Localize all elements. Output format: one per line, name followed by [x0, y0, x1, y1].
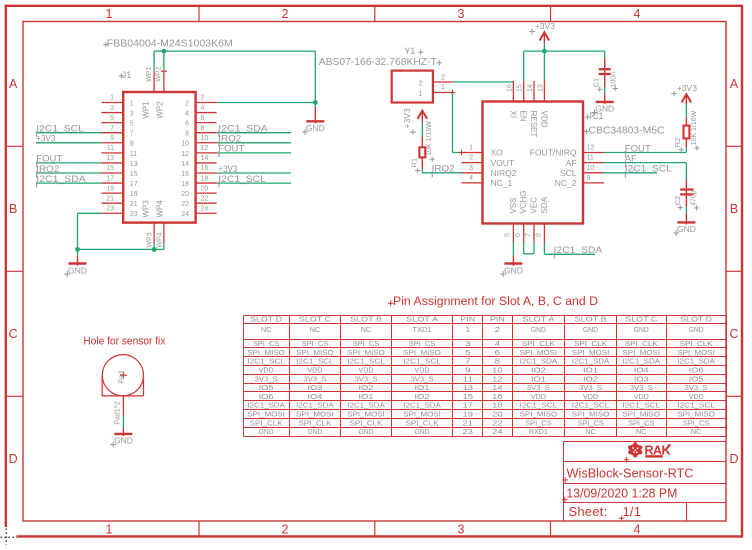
- svg-text:SCL: SCL: [560, 168, 577, 178]
- svg-text:CBC34803-M5C: CBC34803-M5C: [589, 126, 665, 137]
- capacitor C2 value label 470p: [691, 190, 700, 210]
- svg-text:RESET: RESET: [529, 111, 538, 138]
- svg-text:8: 8: [495, 359, 501, 366]
- svg-text:VDD: VDD: [634, 394, 649, 401]
- svg-text:10: 10: [181, 141, 189, 148]
- IC1 right pins 12 11 10 9 FOUT/NIRQ AF SCL NC_2: [530, 145, 604, 189]
- svg-text:D: D: [729, 452, 738, 466]
- J1 right pin stubs 2..24: [196, 103, 217, 214]
- svg-text:I2C1_SDA: I2C1_SDA: [247, 403, 285, 410]
- table title: Pin Assignment for Slot A, B, C and D: [388, 296, 598, 308]
- svg-text:IRQ2: IRQ2: [218, 134, 241, 144]
- svg-text:15: 15: [517, 84, 524, 92]
- svg-text:IO6: IO6: [689, 367, 704, 374]
- svg-text:SPI_MISO: SPI_MISO: [347, 350, 385, 357]
- svg-text:I2C1_SCL: I2C1_SCL: [403, 359, 441, 366]
- svg-text:21: 21: [463, 420, 474, 427]
- svg-text:21: 21: [130, 201, 138, 208]
- svg-text:SLOT D: SLOT D: [250, 317, 282, 324]
- crystal Y1 name label: [404, 46, 423, 56]
- wire J1 pin2 to GND: [217, 103, 316, 108]
- svg-text:GND: GND: [583, 327, 598, 334]
- svg-text:SPI_MISO: SPI_MISO: [247, 350, 285, 357]
- svg-text:3: 3: [458, 522, 465, 536]
- svg-text:C: C: [729, 327, 738, 341]
- svg-text:VDD: VDD: [531, 394, 546, 401]
- svg-text:9: 9: [465, 367, 471, 374]
- capacitor C2 name label: [673, 196, 683, 210]
- svg-text:SPI_CS: SPI_CS: [409, 341, 436, 348]
- svg-text:2: 2: [185, 100, 189, 107]
- svg-text:17: 17: [106, 175, 114, 182]
- svg-text:2: 2: [282, 522, 289, 536]
- wire net IRQ2 (J1 left): [36, 172, 102, 174]
- net label IRQ2: [432, 164, 455, 178]
- svg-text:WP2: WP2: [155, 101, 164, 119]
- svg-text:4: 4: [185, 110, 189, 117]
- junction at +3V3 above IC1: [542, 49, 547, 54]
- text Hole for sensor fix: [83, 336, 165, 348]
- svg-text:NC: NC: [361, 327, 372, 334]
- svg-text:I2C1_SDA: I2C1_SDA: [403, 403, 441, 410]
- svg-text:NC: NC: [310, 327, 321, 334]
- ground GND (near J1 pin 2): [302, 107, 325, 135]
- svg-text:24: 24: [181, 211, 189, 218]
- wire IC1 VSS to GND: [512, 242, 514, 256]
- svg-text:470p: 470p: [691, 190, 698, 206]
- svg-text:SLOT A: SLOT A: [406, 317, 438, 324]
- svg-text:IO4: IO4: [307, 394, 322, 401]
- wire IC1 VCHG to VEC: [524, 242, 534, 254]
- svg-text:10K 1/16W: 10K 1/16W: [691, 110, 698, 145]
- svg-text:VDD: VDD: [689, 394, 704, 401]
- svg-text:I2C1_SDA: I2C1_SDA: [296, 403, 334, 410]
- svg-text:3V3_S: 3V3_S: [411, 376, 434, 383]
- svg-text:12: 12: [492, 376, 503, 383]
- wire C2 to GND: [685, 207, 687, 214]
- junction at GND corner below J1: [75, 247, 80, 252]
- svg-text:22: 22: [492, 420, 503, 427]
- Y1 pin 2: [418, 75, 452, 88]
- svg-text:IO1: IO1: [359, 394, 374, 401]
- svg-text:7: 7: [110, 125, 114, 132]
- junction at WP1/WP2: [162, 49, 167, 54]
- svg-text:3V3_S: 3V3_S: [527, 385, 550, 392]
- svg-text:2: 2: [201, 95, 205, 102]
- svg-text:6: 6: [515, 233, 522, 237]
- svg-text:13/09/2020 1:28 PM: 13/09/2020 1:28 PM: [566, 485, 677, 500]
- svg-text:IO5: IO5: [689, 376, 704, 383]
- wire net IRQ2 (J1 right): [217, 142, 291, 144]
- svg-text:3: 3: [465, 341, 471, 348]
- J1 top pins WP1 WP2: [142, 67, 167, 119]
- wire Y1 pin1 to IC1 XO: [453, 93, 462, 153]
- svg-text:4: 4: [634, 7, 641, 21]
- wire Y1 pin2 to IC1 XI: [453, 81, 514, 83]
- svg-text:14: 14: [181, 161, 189, 168]
- svg-text:FOUT: FOUT: [218, 144, 245, 154]
- hole pad (circle + square): [102, 355, 143, 396]
- svg-text:XO: XO: [491, 148, 504, 158]
- svg-text:J1: J1: [122, 70, 132, 80]
- svg-text:SPI_MOSI: SPI_MOSI: [296, 412, 334, 419]
- title block text WisBlock-Sensor-RTC: [562, 466, 693, 483]
- svg-text:C1: C1: [591, 78, 600, 88]
- svg-text:WP1: WP1: [142, 101, 151, 119]
- svg-text:12: 12: [587, 145, 595, 152]
- svg-text:WP4: WP4: [156, 232, 163, 247]
- svg-text:IO4: IO4: [634, 367, 649, 374]
- svg-text:VDD: VDD: [415, 367, 430, 374]
- net label I2C1_SCL: [625, 164, 672, 178]
- svg-text:RXD1: RXD1: [529, 429, 548, 436]
- svg-text:TXD1: TXD1: [413, 327, 432, 334]
- svg-text:IRQ2: IRQ2: [36, 164, 59, 174]
- title block date 13/09/2020 1:28 PM: [562, 485, 677, 502]
- svg-text:3: 3: [458, 7, 465, 21]
- svg-text:IO1: IO1: [531, 376, 546, 383]
- svg-text:23: 23: [130, 211, 138, 218]
- svg-text:1: 1: [469, 145, 473, 152]
- pin assignment table data rows: [247, 327, 715, 436]
- svg-text:PIN: PIN: [490, 317, 505, 324]
- net label I2C1_SDA: [554, 245, 603, 258]
- svg-text:10: 10: [492, 367, 503, 374]
- svg-text:4: 4: [201, 105, 205, 112]
- svg-text:12: 12: [181, 151, 189, 158]
- svg-text:4: 4: [469, 175, 473, 182]
- svg-text:23: 23: [106, 205, 114, 212]
- svg-text:D: D: [9, 452, 18, 466]
- wire net I2C1_SDA (IC1 SDA pin8): [544, 242, 595, 254]
- pin assignment table grid: [244, 316, 727, 437]
- svg-text:B: B: [9, 202, 17, 216]
- svg-text:SPI_MISO: SPI_MISO: [296, 350, 334, 357]
- svg-text:6: 6: [201, 115, 205, 122]
- ground GND (below J1): [64, 256, 87, 278]
- svg-text:3V3_S: 3V3_S: [630, 385, 653, 392]
- svg-text:SPI_CS: SPI_CS: [353, 341, 380, 348]
- svg-text:8: 8: [201, 125, 205, 132]
- svg-text:GND: GND: [531, 327, 546, 334]
- resistor R1: [419, 137, 425, 168]
- svg-text:19: 19: [106, 185, 114, 192]
- wire net I2C1_SCL (IC1 pin10): [604, 172, 657, 174]
- capacitor C2: [680, 179, 693, 206]
- svg-text:1: 1: [130, 100, 134, 107]
- svg-text:I2C1_SCL: I2C1_SCL: [677, 403, 715, 410]
- svg-text:24: 24: [201, 205, 209, 212]
- svg-text:SPI_CLK: SPI_CLK: [574, 341, 607, 348]
- svg-text:IO1: IO1: [583, 367, 598, 374]
- svg-text:15: 15: [106, 165, 114, 172]
- svg-text:1/1: 1/1: [623, 504, 642, 519]
- svg-text:8: 8: [185, 131, 189, 138]
- IC1 value label CBC34803-M5C: [584, 126, 665, 137]
- svg-text:Pad: Pad: [118, 371, 125, 384]
- svg-text:I2C1_SCL: I2C1_SCL: [218, 174, 265, 184]
- svg-text:3V3_S: 3V3_S: [579, 385, 602, 392]
- svg-text:18: 18: [181, 181, 189, 188]
- svg-text:AF: AF: [625, 153, 638, 163]
- svg-text:6: 6: [185, 121, 189, 128]
- svg-text:C: C: [9, 327, 18, 341]
- ground GND (below hole pad): [110, 428, 133, 448]
- svg-text:VDD: VDD: [259, 367, 274, 374]
- svg-text:IO6: IO6: [259, 394, 274, 401]
- svg-text:GND: GND: [634, 327, 649, 334]
- svg-text:WP3: WP3: [147, 232, 154, 247]
- svg-text:VEC: VEC: [529, 197, 538, 214]
- svg-text:GND: GND: [689, 327, 704, 334]
- svg-text:2: 2: [282, 7, 289, 21]
- svg-text:+3V3: +3V3: [535, 21, 555, 31]
- svg-text:2: 2: [418, 78, 422, 87]
- connector J1 name label J1: [119, 70, 132, 80]
- svg-text:SPI_CS: SPI_CS: [683, 420, 710, 427]
- wire net I2C1_SDA (J1 right): [217, 132, 291, 134]
- svg-text:+3V3: +3V3: [218, 164, 237, 174]
- svg-text:VCHG: VCHG: [519, 190, 528, 213]
- wire net FOUT (J1 right): [217, 152, 291, 154]
- wire net +3V3 (J1 left): [36, 142, 102, 144]
- svg-text:ABS07-166-32.768KHZ-T: ABS07-166-32.768KHZ-T: [319, 57, 437, 68]
- svg-text:18: 18: [201, 175, 209, 182]
- svg-text:3: 3: [469, 165, 473, 172]
- svg-text:SPI_CS: SPI_CS: [577, 420, 604, 427]
- svg-text:NC: NC: [261, 327, 272, 334]
- svg-text:VDD: VDD: [307, 367, 322, 374]
- svg-text:SLOT C: SLOT C: [299, 317, 331, 324]
- svg-text:2: 2: [441, 75, 445, 82]
- svg-text:GND: GND: [677, 224, 696, 234]
- wire +3V3 to R1: [421, 122, 423, 137]
- svg-text:IO5: IO5: [259, 385, 274, 392]
- svg-text:C2: C2: [673, 196, 682, 206]
- wire net FOUT (J1 left): [36, 162, 102, 164]
- svg-text:100n: 100n: [610, 72, 617, 88]
- svg-text:10: 10: [201, 135, 209, 142]
- wire net I2C1_SDA (J1 left): [36, 182, 102, 184]
- hole pad name label Pad: [118, 371, 125, 384]
- capacitor C1 value label 100n: [610, 72, 617, 91]
- svg-text:FOUT: FOUT: [625, 143, 652, 153]
- svg-text:VOUT: VOUT: [491, 158, 515, 168]
- wire C1 to GND: [604, 87, 606, 94]
- svg-text:NC: NC: [691, 429, 702, 436]
- svg-text:SPI_MOSI: SPI_MOSI: [677, 350, 715, 357]
- svg-text:3: 3: [110, 105, 114, 112]
- svg-text:SPI_MOSI: SPI_MOSI: [520, 350, 558, 357]
- svg-text:2: 2: [495, 327, 501, 334]
- svg-text:I2C1_SCL: I2C1_SCL: [36, 124, 84, 134]
- connector J1 value label FBB04004-M24S1003K6M: [103, 38, 233, 50]
- svg-text:SLOT B: SLOT B: [350, 317, 382, 324]
- svg-text:I2C1_SCL: I2C1_SCL: [347, 359, 385, 366]
- svg-text:I2C1_SDA: I2C1_SDA: [347, 403, 385, 410]
- svg-text:SPI_CS: SPI_CS: [525, 420, 552, 427]
- net label I2C1_SCL: [36, 124, 84, 138]
- svg-text:R2: R2: [673, 138, 682, 148]
- svg-text:13: 13: [537, 84, 544, 92]
- svg-text:IO2: IO2: [359, 385, 374, 392]
- svg-text:I2C1_SDA: I2C1_SDA: [520, 359, 558, 366]
- svg-text:NC: NC: [636, 429, 647, 436]
- svg-text:11: 11: [107, 145, 114, 152]
- wire J1 pin23 to GND: [78, 213, 102, 249]
- wire net I2C1_SCL (J1 right): [217, 182, 291, 184]
- svg-text:IO2: IO2: [531, 367, 546, 374]
- svg-text:SPI_CLK: SPI_CLK: [298, 420, 331, 427]
- svg-text:WP4: WP4: [155, 200, 164, 218]
- svg-text:+3V3: +3V3: [677, 83, 697, 93]
- svg-text:SLOT B: SLOT B: [575, 317, 607, 324]
- svg-text:13: 13: [106, 155, 114, 162]
- svg-text:I2C1_SDA: I2C1_SDA: [623, 359, 661, 366]
- supply +3V3 (above IC1): [529, 21, 555, 43]
- svg-text:1: 1: [106, 522, 113, 536]
- svg-text:9: 9: [110, 135, 114, 142]
- svg-text:SPI_MISO: SPI_MISO: [572, 412, 610, 419]
- svg-text:15: 15: [130, 171, 138, 178]
- wire net FOUT (IC1 pin12 to R2): [604, 152, 686, 154]
- svg-text:3V3_S: 3V3_S: [255, 376, 278, 383]
- IC1 top pins 16 15 14 13 XI EN RESET VDD: [506, 81, 548, 137]
- svg-text:WP2: WP2: [156, 67, 163, 82]
- svg-text:1: 1: [106, 7, 113, 21]
- J1 left pin numbers odd: [106, 95, 137, 218]
- svg-text:3V3_S: 3V3_S: [355, 376, 378, 383]
- wire net I2C1_SCL (J1 left): [36, 132, 102, 134]
- svg-text:SPI_MISO: SPI_MISO: [403, 350, 441, 357]
- svg-text:22: 22: [181, 201, 189, 208]
- svg-text:GND: GND: [307, 429, 322, 436]
- ground GND (below C2): [673, 213, 696, 236]
- svg-text:17: 17: [463, 403, 474, 410]
- J1 right pin numbers even: [181, 95, 208, 218]
- svg-text:16: 16: [201, 165, 209, 172]
- svg-text:4: 4: [495, 341, 501, 348]
- net label +3V3: [36, 134, 55, 144]
- svg-text:2: 2: [469, 155, 473, 162]
- net label +3V3: [218, 164, 237, 174]
- svg-text:1: 1: [441, 84, 445, 91]
- svg-text:GND: GND: [415, 429, 430, 436]
- svg-text:10: 10: [587, 165, 595, 172]
- junction at J1 pin2 wire corner: [313, 100, 318, 105]
- svg-text:B: B: [730, 202, 738, 216]
- net label FOUT: [36, 154, 63, 168]
- net label IRQ2: [36, 164, 59, 178]
- svg-text:21: 21: [106, 195, 114, 202]
- svg-text:I2C1_SCL: I2C1_SCL: [247, 359, 285, 366]
- svg-text:20: 20: [181, 191, 189, 198]
- svg-text:23: 23: [463, 429, 474, 436]
- Y1 pin 1: [418, 84, 455, 98]
- svg-text:I2C1_SCL: I2C1_SCL: [623, 403, 661, 410]
- svg-text:SPI_CLK: SPI_CLK: [406, 420, 439, 427]
- svg-text:GND: GND: [259, 429, 274, 436]
- svg-text:11: 11: [587, 155, 594, 162]
- J1 bottom pins WP3 WP4: [142, 200, 165, 248]
- svg-text:I2C1_SDA: I2C1_SDA: [36, 174, 86, 184]
- svg-text:9: 9: [130, 141, 134, 148]
- connector J1: [123, 92, 195, 223]
- svg-text:SLOT C: SLOT C: [625, 317, 657, 324]
- capacitor C1: [599, 58, 611, 87]
- svg-text:16: 16: [492, 394, 503, 401]
- svg-text:19: 19: [130, 191, 138, 198]
- svg-text:12: 12: [201, 145, 209, 152]
- svg-text:Sheet:: Sheet:: [569, 504, 608, 519]
- svg-text:I2C1_SDA: I2C1_SDA: [677, 359, 715, 366]
- resistor R2: [684, 118, 690, 148]
- net label IRQ2: [218, 134, 241, 148]
- title block frame: [564, 442, 727, 522]
- svg-text:VDD: VDD: [539, 111, 548, 128]
- svg-text:SPI_CS: SPI_CS: [253, 341, 280, 348]
- svg-text:SPI_MISO: SPI_MISO: [520, 412, 558, 419]
- svg-text:16: 16: [181, 171, 189, 178]
- svg-text:WisBlock-Sensor-RTC: WisBlock-Sensor-RTC: [567, 466, 694, 481]
- svg-text:A: A: [9, 77, 18, 91]
- net label AF: [625, 153, 638, 167]
- wire R1 to IC1 NIRQ2 (net IRQ2): [422, 169, 461, 173]
- svg-text:I2C1_SCL: I2C1_SCL: [625, 164, 672, 174]
- svg-text:SPI_MISO: SPI_MISO: [677, 412, 715, 419]
- svg-text:PIN: PIN: [460, 317, 475, 324]
- svg-text:WP1: WP1: [146, 67, 153, 82]
- svg-text:SPI_CS: SPI_CS: [628, 420, 655, 427]
- svg-text:IO2: IO2: [415, 394, 430, 401]
- svg-text:VDD: VDD: [359, 367, 374, 374]
- svg-text:SDA: SDA: [540, 196, 549, 213]
- IC1 pin1 connection cross: [459, 150, 465, 156]
- svg-text:24: 24: [492, 429, 503, 436]
- svg-text:EN: EN: [519, 111, 528, 122]
- svg-text:SPI_CLK: SPI_CLK: [350, 420, 383, 427]
- svg-text:IRQ2: IRQ2: [432, 164, 455, 174]
- svg-text:4: 4: [634, 522, 641, 536]
- svg-text:GND: GND: [306, 123, 325, 133]
- svg-text:SPI_CS: SPI_CS: [302, 341, 329, 348]
- svg-text:VSS: VSS: [509, 197, 518, 213]
- svg-text:WP3: WP3: [142, 200, 151, 218]
- svg-text:I2C1_SDA: I2C1_SDA: [572, 359, 610, 366]
- svg-text:+3V3: +3V3: [36, 134, 55, 144]
- svg-text:7: 7: [130, 131, 134, 138]
- svg-text:13: 13: [130, 161, 138, 168]
- svg-text:I2C1_SDA: I2C1_SDA: [554, 245, 603, 255]
- svg-text:5: 5: [130, 121, 134, 128]
- net label I2C1_SCL: [218, 174, 265, 188]
- svg-text:20: 20: [201, 185, 209, 192]
- resistor R2 name label: [673, 138, 684, 153]
- RTC IC1: [483, 102, 584, 224]
- wire +3V3 to R2: [685, 105, 687, 118]
- svg-text:GND: GND: [114, 436, 133, 446]
- IC1 bottom pins 5 6 7 8 VSS VCHG VEC SDA: [505, 190, 549, 242]
- svg-text:11: 11: [463, 376, 474, 383]
- svg-text:R1: R1: [410, 158, 419, 168]
- svg-text:SLOT D: SLOT D: [680, 317, 712, 324]
- svg-text:1: 1: [465, 327, 471, 334]
- svg-text:9: 9: [587, 175, 591, 182]
- svg-text:FBB04004-M24S1003K6M: FBB04004-M24S1003K6M: [107, 38, 233, 50]
- svg-text:IO2: IO2: [583, 376, 598, 383]
- svg-text:I2C1_SDA: I2C1_SDA: [218, 124, 267, 134]
- svg-text:14: 14: [201, 155, 209, 162]
